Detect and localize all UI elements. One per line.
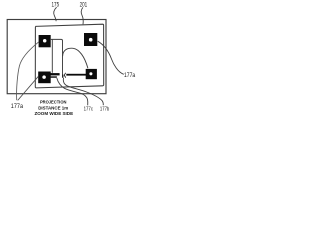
projected image inner quadrilateral 201 (35, 24, 103, 88)
svg-text:177a: 177a (124, 73, 136, 79)
leader to label 177c (57, 78, 88, 105)
bar segment 177b (long bar to bottom-right marker) (66, 74, 86, 76)
lower small stub (50, 76, 57, 78)
svg-text:201: 201 (80, 2, 88, 9)
svg-text:177b: 177b (100, 107, 109, 113)
svg-text:PROJECTION: PROJECTION (40, 100, 67, 105)
leader from top-right marker to label 177a (right) (98, 41, 124, 74)
marker 177a bottom-right (86, 69, 97, 79)
tall callout rectangle between markers (51, 39, 63, 77)
svg-text:177c: 177c (84, 107, 93, 113)
chevron arrowhead (64, 73, 65, 78)
svg-text:177a: 177a (11, 103, 24, 110)
svg-text:ZOOM WIDE SIDE: ZOOM WIDE SIDE (35, 111, 74, 116)
svg-text:175: 175 (52, 1, 60, 8)
leader to label 177b (63, 78, 103, 105)
arc leader to bottom-right marker (63, 48, 88, 68)
leader from bottom-left marker to label 177a (bottom-left) (18, 76, 39, 100)
screen outer rectangle 175 (7, 20, 106, 94)
leader squiggle for 201 (81, 7, 83, 24)
svg-text:DISTANCE 1m: DISTANCE 1m (38, 105, 68, 110)
leader squiggle for 175 (54, 7, 57, 21)
caption: projection conditions (35, 100, 74, 117)
bar segment 177c (left stub from bottom-left marker) (50, 73, 60, 75)
marker 177a bottom-left (38, 72, 51, 84)
tick near 63 (62, 75, 63, 78)
marker 177a top-right (84, 33, 97, 46)
marker 177a top-left (39, 35, 51, 47)
leader from top-left marker to label 177a (bottom-left) (17, 42, 39, 100)
